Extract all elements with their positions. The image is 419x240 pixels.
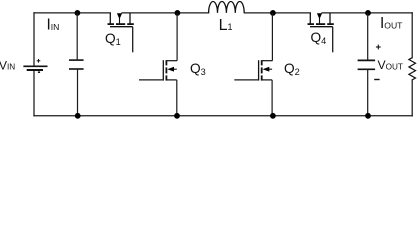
node output junction top xyxy=(365,10,371,16)
wire bottom rail xyxy=(34,115,412,117)
wire right rail upper xyxy=(411,13,413,58)
node Q2 source junction xyxy=(270,113,276,119)
wire top segment left xyxy=(34,12,110,14)
label plus output xyxy=(376,45,381,50)
node input junction bottom xyxy=(75,113,81,119)
transistor Q4 xyxy=(308,13,334,52)
wire top segment L1-to-Q4 xyxy=(244,12,310,14)
node output junction bottom xyxy=(365,113,371,119)
label minus output xyxy=(374,79,379,81)
node SW2 junction xyxy=(270,10,276,16)
capacitor Cin xyxy=(69,60,84,69)
transistor Q1 xyxy=(108,13,134,52)
capacitor Cout xyxy=(358,60,376,69)
transistor Q3 xyxy=(139,60,177,116)
node Q3 source junction xyxy=(174,113,180,119)
node SW1 junction xyxy=(175,10,181,16)
wire top segment Q4-to-right xyxy=(322,12,412,14)
node A input junction top xyxy=(75,10,81,16)
wire output-cap bottom xyxy=(367,69,369,116)
wire left rail upper xyxy=(33,13,35,66)
resistor Rload xyxy=(409,58,416,80)
wire input-cap top xyxy=(76,13,78,60)
wire top segment Q1-to-L1 xyxy=(122,12,209,14)
wire SW2 down xyxy=(271,13,273,61)
wire SW1 down xyxy=(176,13,178,61)
inductor L1 xyxy=(209,1,245,12)
wire left rail lower xyxy=(33,70,35,116)
wire right rail lower xyxy=(411,80,413,116)
wire output-cap top xyxy=(367,13,369,60)
wire input-cap bottom xyxy=(77,69,79,116)
transistor Q2 xyxy=(234,60,272,116)
voltage source VIN (battery) xyxy=(23,59,47,72)
